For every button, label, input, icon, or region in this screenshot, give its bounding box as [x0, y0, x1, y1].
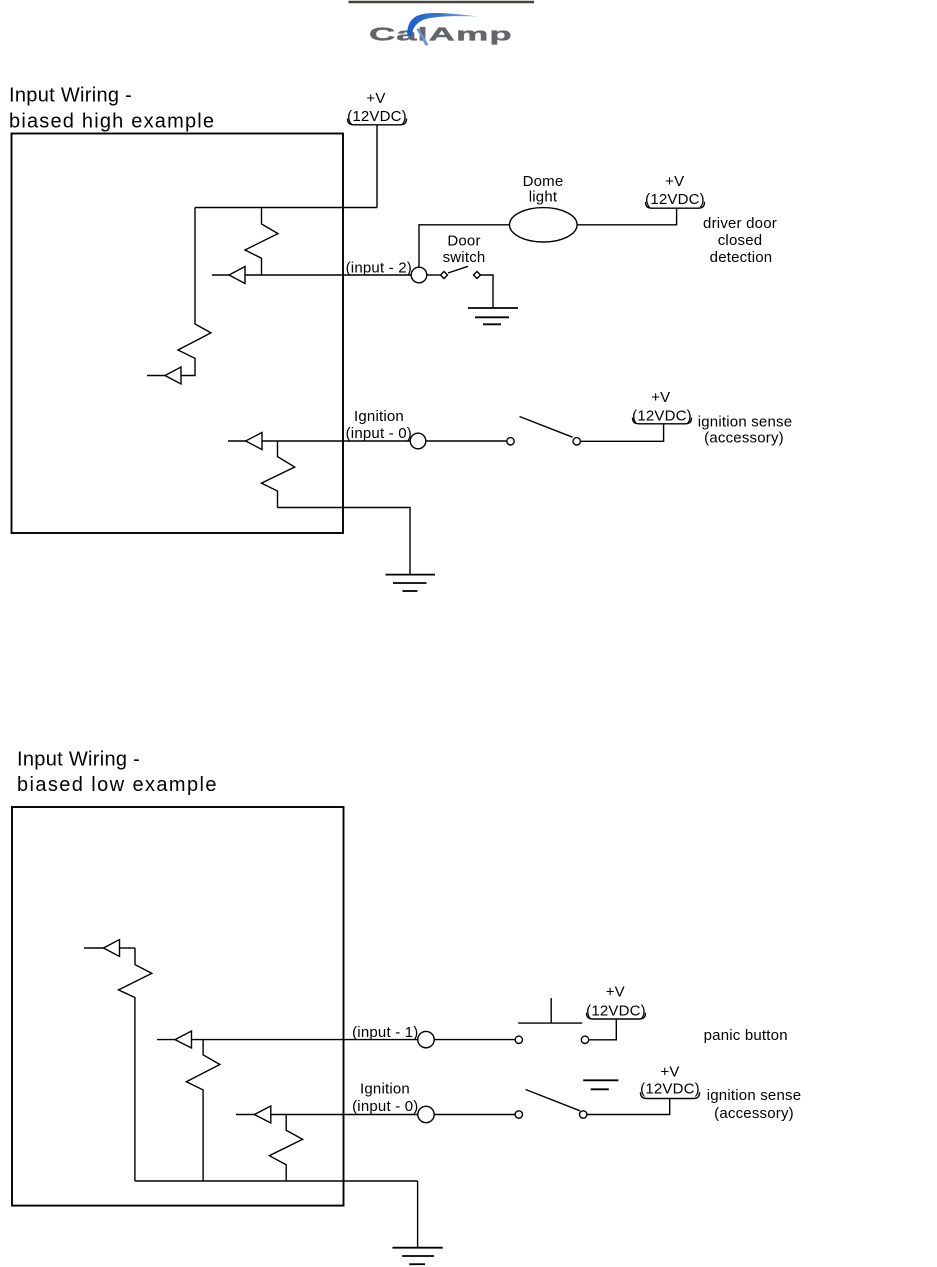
svg-text:+V: +V [651, 389, 670, 406]
header rule [349, 1, 535, 4]
power +V (12VDC) supply ignition [632, 389, 692, 425]
svg-text:+V: +V [660, 1064, 679, 1081]
push button right contact [581, 1036, 588, 1043]
ground (door switch) [468, 308, 518, 324]
node: input 0 terminal [410, 433, 426, 449]
wire: input 0 line (biased low) [271, 1114, 418, 1116]
svg-text:(12VDC): (12VDC) [347, 108, 407, 125]
wire: buffer U2B output stub [157, 1039, 175, 1041]
label Ignition (input - 0) biased low [352, 1081, 418, 1115]
wire: dome light to +V right [577, 208, 677, 225]
buffer U1B (unused input) [165, 367, 181, 384]
svg-text:+V: +V [665, 173, 684, 190]
wire: ground rail [135, 1180, 418, 1182]
resistor R2 (unused input pull-up) [178, 208, 211, 376]
svg-text:+V: +V [606, 984, 625, 1001]
wire: input 1 terminal to push button [434, 1039, 515, 1041]
device box (biased high example) [12, 134, 344, 534]
svg-text:Ignition: Ignition [360, 1081, 410, 1098]
svg-text:(12VDC): (12VDC) [586, 1003, 646, 1020]
wire: buffer U2C output stub [236, 1114, 254, 1116]
ignition switch right contact (biased low) [580, 1111, 587, 1118]
wire: ignition switch to +V (biased low) [587, 1099, 670, 1115]
wire: input 1 line [192, 1039, 418, 1041]
resistor R1 (input 2 pull-up) [245, 208, 278, 276]
svg-text:(accessory): (accessory) [714, 1105, 794, 1122]
CalAmp logo [369, 13, 513, 46]
svg-text:Door: Door [447, 233, 480, 250]
wire: buffer U2A input to R4 [120, 947, 136, 949]
wire: buffer U1C output stub [228, 440, 246, 442]
ignition switch right contact [573, 438, 580, 445]
resistor R5 (input 1 pull-down) [186, 1040, 220, 1181]
svg-text:Dome: Dome [523, 173, 564, 190]
label ignition sense (accessory) biased low [707, 1087, 802, 1122]
svg-text:Ignition: Ignition [354, 408, 404, 425]
svg-text:(accessory): (accessory) [704, 430, 784, 447]
ignition switch left contact [507, 438, 514, 445]
svg-text:(input - 2): (input - 2) [346, 260, 412, 277]
label Ignition (input - 0) [346, 408, 412, 442]
svg-text:(input - 0): (input - 0) [352, 1098, 418, 1115]
label driver door closed detection [703, 215, 777, 266]
svg-text:(12VDC): (12VDC) [645, 191, 705, 208]
resistor R3 (input 0 pull-down) [262, 441, 295, 508]
wire: buffer U1B output stub [147, 375, 165, 377]
ignition switch blade [520, 417, 573, 438]
svg-text:detection: detection [710, 249, 773, 266]
ground (device, biased high) [386, 575, 436, 591]
wire: input 2 line [245, 274, 411, 276]
svg-text:switch: switch [443, 249, 486, 266]
wire: input 0 line [262, 440, 410, 442]
wire: input 2 terminal to door switch [427, 274, 441, 276]
wire: internal +V rail [195, 207, 377, 209]
buffer U2C (input 0 / ignition) [254, 1106, 270, 1123]
svg-text:ignition sense: ignition sense [707, 1087, 802, 1104]
ground (device, biased low) [392, 1248, 442, 1265]
buffer U2B (input 1) [175, 1031, 192, 1048]
ignition switch left contact (biased low) [515, 1111, 522, 1118]
ignition switch blade (biased low) [526, 1090, 580, 1111]
svg-text:panic button: panic button [704, 1027, 788, 1044]
svg-text:(input - 0): (input - 0) [346, 425, 412, 442]
label Door switch [443, 233, 486, 267]
title: Input Wiring - biased high example [9, 85, 215, 133]
wire: +V top drop [376, 125, 378, 208]
svg-text:(12VDC): (12VDC) [632, 408, 692, 425]
resistor R6 (input 0 pull-down) [269, 1115, 302, 1182]
power +V (12VDC) supply ignition (biased low) [640, 1064, 700, 1099]
power +V (12VDC) supply right [645, 173, 705, 208]
buffer U2A (unused input) [104, 940, 120, 957]
buffer U1C (input 0 / ignition) [246, 433, 262, 450]
resistor R4 (pull-down) [119, 948, 152, 1013]
svg-text:driver door: driver door [703, 215, 777, 232]
lamp: dome light [510, 208, 578, 242]
node: input 2 terminal [411, 267, 427, 283]
svg-text:+V: +V [366, 90, 385, 107]
wire: buffer U1A output stub [212, 274, 229, 276]
title: Input Wiring - biased low example [17, 748, 218, 796]
wire: R4 to ground rail [134, 1013, 136, 1181]
wire: rail to ground symbol [417, 1181, 419, 1248]
wire: input 0 terminal to ignition switch [426, 440, 507, 442]
wire: input 2 terminal up to dome light [419, 225, 510, 267]
label Dome light [523, 173, 564, 206]
wire: R3 to ground [278, 508, 411, 575]
svg-text:biased low example: biased low example [17, 774, 218, 796]
wire: ignition switch to +V [580, 424, 663, 442]
door switch blade [448, 266, 468, 273]
svg-text:light: light [529, 189, 558, 206]
svg-text:CalAmp: CalAmp [369, 24, 513, 44]
power +V (12VDC) supply panic [586, 984, 646, 1020]
push button actuator [518, 998, 582, 1023]
device box (biased low example) [12, 807, 344, 1206]
svg-text:Input Wiring -: Input Wiring - [17, 748, 140, 770]
svg-text:(input - 1): (input - 1) [352, 1024, 418, 1041]
door switch right contact [474, 272, 481, 279]
power +V (12VDC) supply top [347, 90, 407, 125]
svg-text:(12VDC): (12VDC) [640, 1081, 700, 1098]
wire: buffer U2A output stub [84, 947, 104, 949]
node: input 1 terminal [418, 1031, 434, 1047]
node: input 0 terminal (biased low) [418, 1106, 434, 1122]
svg-text:Input Wiring -: Input Wiring - [9, 85, 132, 107]
svg-text:ignition sense: ignition sense [698, 413, 793, 430]
svg-text:biased high example: biased high example [9, 110, 215, 132]
wire: push button to +V [589, 1019, 617, 1040]
label ignition sense (accessory) [698, 413, 793, 446]
svg-text:closed: closed [718, 232, 763, 249]
push button left contact [515, 1036, 522, 1043]
wire: input 0 terminal to ignition switch (biased low) [434, 1114, 515, 1116]
wire: door switch to ground [481, 275, 494, 308]
door switch left contact [441, 272, 448, 279]
chassis ground (above ignition switch) [583, 1080, 618, 1089]
buffer U1A (input 2) [229, 267, 245, 284]
